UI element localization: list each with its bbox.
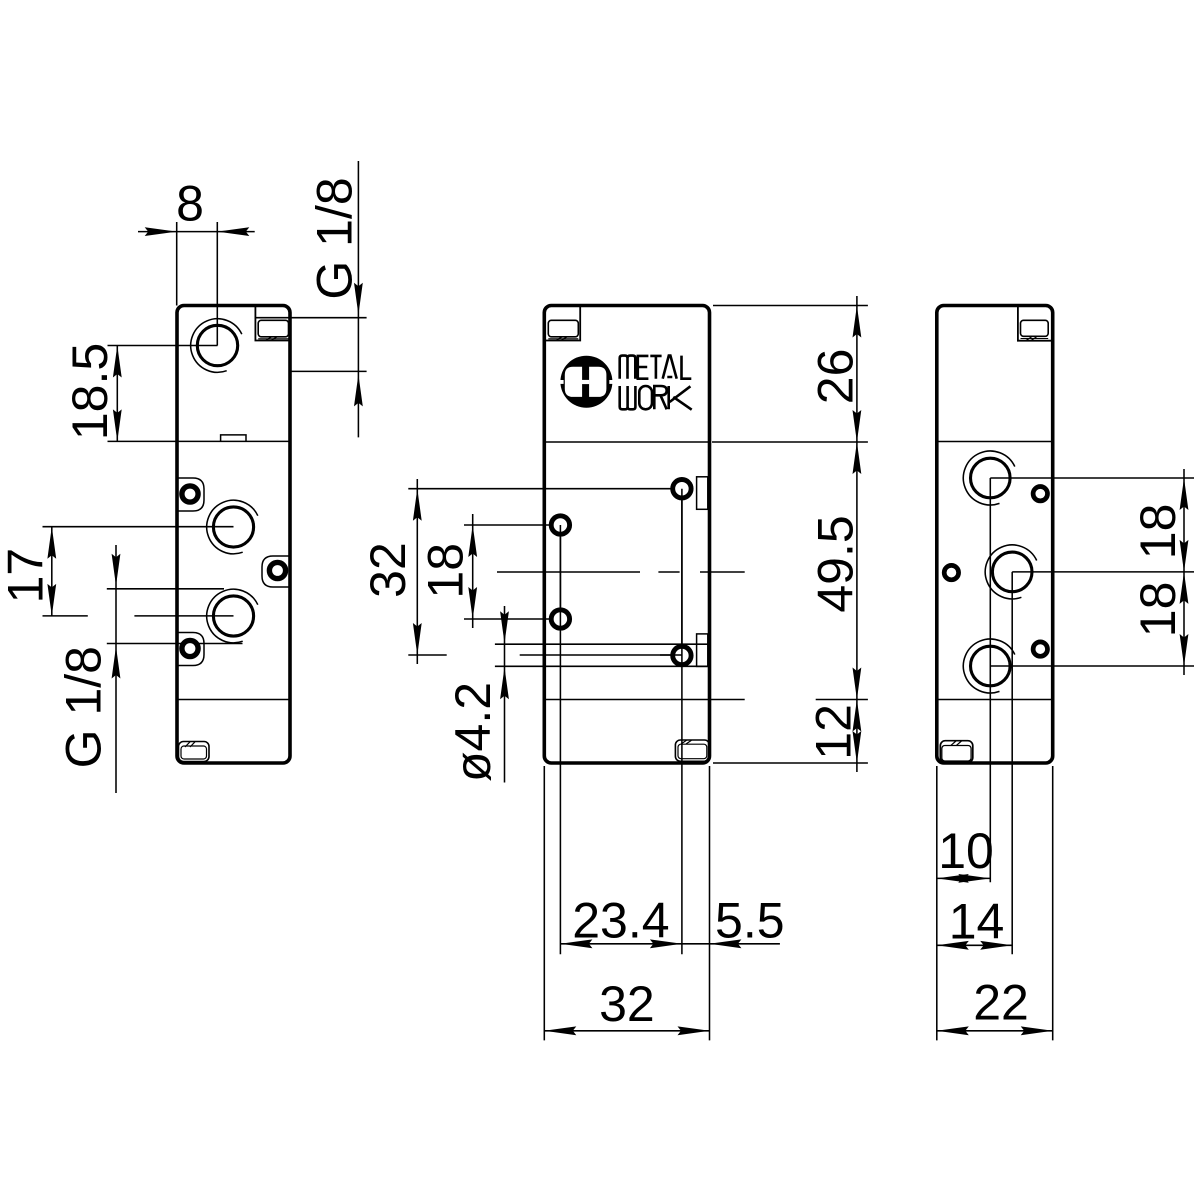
screw boss top-left [177, 478, 204, 511]
screw hole ring top-left [182, 486, 198, 502]
wire: 32 bottom extension left segment [408, 654, 446, 656]
svg-text:12: 12 [805, 704, 861, 760]
pilot recess boundary top-left [544, 306, 580, 341]
wire: right extension bottom edge [713, 762, 868, 764]
svg-text:10: 10 [938, 823, 994, 879]
notch rect right edge top [697, 477, 708, 510]
letter A [663, 356, 677, 379]
arrow 32b left [544, 1026, 576, 1035]
arrow 18.5 bottom [113, 409, 122, 441]
bottom-left exhaust rect outer [179, 742, 210, 762]
arrow 17 bottom [47, 584, 56, 616]
dimension line 8 [138, 231, 255, 233]
bottom-left exhaust hatch right view [951, 741, 962, 745]
wire: o4.2 tangent lower [495, 665, 710, 667]
bottom-left exhaust hatch [185, 742, 195, 747]
svg-text:5.5: 5.5 [715, 893, 785, 949]
wire: o4.2 tangent upper [495, 643, 710, 645]
arrow G1/8 bottom upper [112, 554, 121, 586]
arrow 22 right [1021, 1026, 1053, 1035]
wire: port3 horizontal center line [990, 665, 1194, 667]
wire: G1/8 bottom tangent lower [107, 643, 243, 645]
arrow 23.4 left [560, 939, 592, 948]
notch rect right edge bottom [697, 634, 708, 667]
wire: G1/8 top tangent line lower [289, 370, 367, 372]
middle dimension: 32 (left) [416, 479, 418, 664]
logo left lobe [565, 367, 582, 397]
wire: right extension top edge [713, 305, 868, 307]
pilot inner rect top-right [258, 320, 288, 337]
middle: thin interior and extension lines [408, 306, 868, 1041]
big circle 2 bold [213, 596, 253, 636]
mounting hole left-top [551, 516, 569, 534]
mounting hole top-right [673, 480, 691, 498]
arrow 18b top [1180, 572, 1189, 604]
arrow G1/8 bottom lower [112, 647, 121, 679]
pilot hatch ticks [557, 337, 568, 340]
left view dimension: 18.5 [116, 346, 118, 442]
port circle top (G1/8) [197, 325, 237, 365]
arrow 18a bottom [1180, 540, 1189, 572]
bottom-left exhaust rect inner right view [942, 746, 971, 762]
line over hole: center segment into bottom-right hole [660, 654, 682, 656]
extension line left [176, 222, 178, 306]
wire: bottom extension body left [543, 766, 545, 1040]
big circle 1 thread arc [207, 500, 258, 554]
arrow G1/8 top upper [354, 283, 363, 315]
right view body outline [937, 306, 1053, 764]
bottom-left exhaust rect inner [181, 746, 207, 759]
wire: divider2 right extension [710, 699, 745, 701]
middle dimension: 18 (left) [472, 514, 474, 628]
svg-text:17: 17 [0, 548, 54, 604]
wire: centerline dash 2 [658, 571, 679, 573]
svg-text:ø4.2: ø4.2 [445, 682, 501, 782]
wire: hole left-bottom center line (18 extension) [464, 618, 560, 620]
right screw hole right-bottom [1033, 642, 1047, 656]
left view dimension: G 1/8 bottom [115, 545, 117, 793]
screw boss bottom-left [177, 633, 204, 666]
wire: port horizontal center line (18.5 extension) [108, 345, 218, 347]
arrow 26 top [853, 306, 862, 338]
left view divider line 1 with extension [108, 440, 291, 442]
arrow 18 bottom [468, 587, 477, 619]
pilot inner rect top-left [548, 320, 578, 337]
svg-text:49.5: 49.5 [808, 515, 864, 612]
arrow G1/8 top lower [354, 374, 363, 406]
bottom-right exhaust hatch [681, 740, 692, 744]
wire: bottom extension left [936, 766, 938, 1040]
right dimension: 14 [937, 944, 1012, 946]
arrow 14 right [980, 941, 1012, 950]
arrow 17 top [47, 527, 56, 559]
wire: port1 horizontal center line [990, 477, 1194, 479]
pilot bottom double line [548, 338, 578, 340]
bottom-left exhaust rect outer right view [940, 741, 973, 763]
arrow 8 left [145, 227, 177, 236]
right dimension: 22 [937, 1030, 1053, 1032]
arrow 18a top [1180, 478, 1189, 510]
pilot hatch ticks [1026, 337, 1037, 340]
left view body outline [177, 306, 290, 764]
middle dimension: 23.4 and 5.5 [560, 943, 780, 945]
letter E [638, 356, 649, 379]
right port 1 bold [971, 458, 1011, 498]
wire: hole bottom-right center line segment [520, 654, 682, 656]
right port 2 thread arc [985, 545, 1036, 599]
wire: vertical line through right holes [681, 489, 683, 955]
screw hole ring bottom-left [182, 640, 198, 656]
wire: circle1 center line (17 extension) [43, 526, 234, 528]
letter R [654, 386, 666, 409]
wire: hole top-right center line (32 top extension) [408, 488, 693, 490]
left view: thin interior lines [43, 222, 367, 644]
letter T [650, 356, 661, 379]
arrow 10 right [958, 874, 990, 883]
svg-text:23.4: 23.4 [572, 893, 669, 949]
right dimension: 10 [937, 877, 991, 879]
svg-text:22: 22 [973, 975, 1029, 1031]
left view dimension: G 1/8 top [357, 161, 359, 437]
letter K [669, 386, 692, 410]
arrow 32 bottom [413, 623, 422, 655]
svg-text:18: 18 [1130, 504, 1186, 560]
big circle 2 thread arc [207, 589, 258, 643]
wire: centerline dash 3 [700, 571, 745, 573]
letter L [682, 356, 692, 379]
arrow 26 bottom [853, 410, 862, 442]
arrow o4.2 upper [500, 611, 509, 643]
pilot recess boundary top-right [1018, 306, 1053, 341]
arrow 12 top [853, 700, 862, 732]
arrow 18.5 top [113, 346, 122, 378]
svg-text:18: 18 [1130, 582, 1186, 638]
middle dimension: 32 bottom [544, 1030, 709, 1032]
letter W [620, 386, 636, 409]
left view divider line 2 [177, 699, 290, 701]
arrow 32 top [413, 489, 422, 521]
middle divider line 2 [544, 699, 709, 701]
wire: right extension 12 line [816, 699, 868, 701]
divider tab notch [221, 435, 246, 442]
arrow 8 right [217, 227, 249, 236]
right port 3 bold [971, 646, 1011, 686]
line over hole: vertical through right holes [681, 489, 683, 666]
wire: circle2 center line right segment [134, 615, 233, 617]
letter O [639, 386, 652, 409]
wire: port vertical center line (8 dim extension) [216, 222, 218, 346]
wire: bottom extension right [1052, 766, 1054, 1040]
right divider line 1 [937, 441, 1053, 443]
bottom-right exhaust rect inner [678, 744, 707, 759]
logo disc [560, 356, 612, 408]
left view dimension: 17 [51, 527, 53, 616]
screw boss right-middle [262, 556, 290, 587]
pilot bottom double line [258, 338, 288, 340]
wire: port1 vertical line to 10 dim [989, 478, 991, 882]
pilot bottom double line [1021, 338, 1049, 340]
wire: bottom extension body right [709, 766, 711, 1040]
svg-text:32: 32 [599, 976, 655, 1032]
logo equator center break [582, 380, 589, 384]
svg-text:8: 8 [176, 176, 204, 232]
middle dimension: o4.2 [504, 606, 506, 783]
logo right lobe [589, 367, 606, 397]
arrow 10 left [937, 874, 969, 883]
right divider line 2 [937, 699, 1053, 701]
wire: vertical line through left holes [559, 525, 561, 954]
METAL WORK logo [559, 356, 613, 408]
middle view body outline [544, 306, 709, 764]
arrow 5.5 right [709, 939, 741, 948]
middle divider line 1 [544, 441, 709, 443]
svg-text:14: 14 [949, 893, 1005, 949]
right port 1 thread arc [963, 451, 1014, 505]
left view dimension: 8 [138, 222, 255, 306]
right screw hole left-middle [944, 565, 958, 579]
logo equator right notch [609, 380, 613, 384]
pilot inner rect right view [1021, 320, 1049, 336]
svg-text:G 1/8: G 1/8 [307, 177, 363, 299]
logo equator band [559, 380, 563, 384]
letter M [620, 356, 636, 379]
line over hole: vertical through left holes [559, 525, 561, 628]
right screw hole right-top [1033, 487, 1047, 501]
arrow o4.2 lower [500, 667, 509, 699]
arrow 22 left [937, 1026, 969, 1035]
arrow 49.5 top [853, 442, 862, 474]
svg-text:26: 26 [808, 349, 864, 405]
wire: G1/8 bottom tangent upper [107, 588, 224, 590]
svg-text:32: 32 [360, 542, 416, 598]
mounting hole bottom-right [673, 646, 691, 664]
bottom-right exhaust rect outer [675, 740, 709, 761]
port thread arc top [191, 319, 242, 373]
wire: circle2 center line left segment [43, 615, 88, 617]
wire: G1/8 top tangent line upper [256, 317, 367, 319]
arrow 23.4 right [650, 939, 682, 948]
right port 2 bold [992, 552, 1032, 592]
wire: hole left-top center line (18 extension) [464, 524, 560, 526]
arrow 18b bottom [1180, 634, 1189, 666]
arrow 14 left [937, 941, 969, 950]
wire: port2 horizontal center line [1012, 571, 1194, 573]
pilot recess boundary top-right [255, 306, 290, 341]
arrow 18 top [468, 525, 477, 557]
screw hole ring right-middle [269, 562, 285, 578]
right port 3 thread arc [963, 639, 1014, 693]
big circle 1 bold [213, 507, 253, 547]
svg-text:G 1/8: G 1/8 [56, 646, 112, 768]
arrow 32b right [678, 1026, 710, 1035]
svg-text:18: 18 [418, 543, 474, 599]
arrow 49.5 bottom [853, 668, 862, 700]
middle dimension: 26 / 49.5 / 12 (right) [856, 296, 858, 772]
pilot hatch ticks [266, 337, 277, 340]
wire: centerline dash 1 [497, 571, 640, 573]
svg-text:18.5: 18.5 [62, 343, 118, 440]
wire: right extension divider [712, 441, 868, 443]
mounting hole left-bottom [551, 610, 569, 628]
arrow 12 bottom [853, 731, 862, 763]
wire: port2 vertical line to 14 dim [1011, 572, 1013, 954]
right dimension: 18 / 18 [1183, 469, 1185, 675]
logo text METAL [620, 356, 692, 410]
